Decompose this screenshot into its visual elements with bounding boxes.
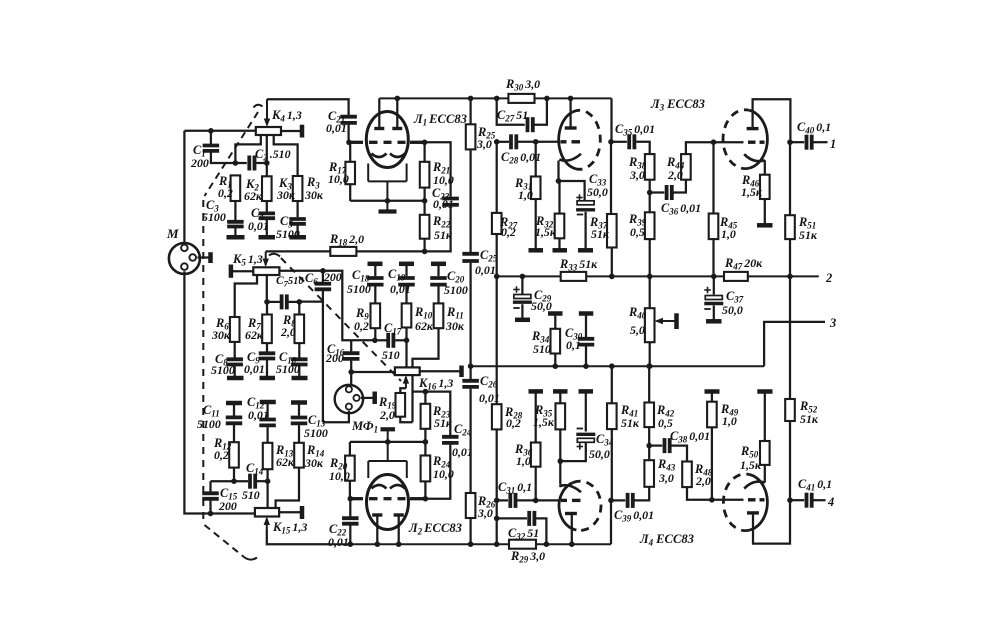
wire R39 bottom <box>649 239 651 276</box>
wire K15 right lead <box>279 511 300 513</box>
anode bar of L3a <box>565 126 577 129</box>
label C4 <box>248 206 269 233</box>
label C34 <box>589 432 614 461</box>
terminal bar under R46 <box>757 223 773 228</box>
svg-text:62к: 62к <box>245 328 264 342</box>
wire R46 bottom <box>764 199 766 224</box>
junction anode bus 2 <box>396 541 402 547</box>
ground symbol under L1 <box>379 201 397 212</box>
terminal bar above C19 <box>399 262 414 267</box>
wire grid into L3b <box>714 141 744 143</box>
potentiometer K15 body <box>255 508 279 517</box>
terminal bar under C29 <box>515 318 530 323</box>
resistor R46 <box>760 175 770 199</box>
wire C27 left <box>497 98 525 124</box>
label R26 <box>477 494 496 520</box>
svg-text:3,0: 3,0 <box>477 506 493 520</box>
junction R34 rail2 <box>553 363 559 369</box>
svg-text:R3351к: R3351к <box>559 257 598 273</box>
resistor R40 (trimmer) <box>645 308 655 342</box>
capacitor C6 <box>315 284 332 290</box>
capacitor C8 <box>226 359 243 364</box>
label R8 <box>280 313 296 339</box>
svg-text:30к: 30к <box>304 456 324 470</box>
chassis bar under C4 <box>259 235 276 240</box>
capacitor C20 <box>430 278 447 285</box>
label C7 <box>276 275 304 289</box>
grid line of L1 (dashed) <box>351 141 425 144</box>
wire node A to C2 <box>235 162 246 164</box>
capacitor C35 <box>629 134 634 149</box>
wire L1 anode top rail <box>379 97 611 99</box>
grid segments of L4b <box>748 498 765 501</box>
wire C30 stem <box>585 314 587 338</box>
wire M bottom pin down-left side <box>184 271 255 513</box>
wire row to R9 <box>351 339 375 341</box>
label C17 <box>384 321 402 337</box>
svg-text:Л3ЕСС83: Л3ЕСС83 <box>650 97 705 113</box>
svg-text:0,5: 0,5 <box>630 225 645 239</box>
wire C17 left <box>375 339 387 341</box>
terminal bar under C33 <box>578 248 593 253</box>
label R1 <box>218 174 233 200</box>
resistor R37 <box>607 214 617 248</box>
label C32 <box>508 526 539 542</box>
junction grid L3b R45 <box>711 139 717 145</box>
svg-text:51к: 51к <box>591 227 610 241</box>
svg-text:0,1: 0,1 <box>566 338 581 352</box>
wire C2 to K2 column <box>256 162 267 164</box>
svg-text:1: 1 <box>830 137 836 151</box>
wire R42 top <box>648 366 650 402</box>
capacitor C21 <box>340 117 357 123</box>
svg-text:200: 200 <box>218 499 237 513</box>
label R27 <box>499 215 518 239</box>
wire R9 bottom <box>374 328 376 340</box>
wire C1 stem top <box>210 131 212 144</box>
junction C39 node <box>608 498 614 504</box>
wiper arrow of R40 <box>655 318 676 324</box>
wire L1 anode stem 2 <box>396 98 398 128</box>
wire R50 top <box>764 393 766 441</box>
chassis bar under C3 <box>227 235 245 240</box>
label C13 <box>304 413 328 440</box>
label R25 <box>476 125 496 151</box>
svg-text:510: 510 <box>533 342 551 356</box>
label R31 <box>514 176 533 202</box>
wire R13 bottom <box>266 469 268 481</box>
resistor R42 <box>644 403 654 428</box>
svg-text:200: 200 <box>190 156 209 170</box>
capacitor C3 <box>227 222 244 227</box>
wire C32 right <box>536 518 546 544</box>
connector M (microphone input) <box>169 243 200 274</box>
wire C5 to bar <box>296 225 298 235</box>
wire bottom bus right part <box>536 543 611 545</box>
wire anode loop L4b <box>753 500 790 543</box>
capacitor C9 <box>259 353 276 358</box>
wire C17 right <box>395 339 406 341</box>
wire C38 left <box>649 444 662 446</box>
wire C10 to bar <box>298 366 300 376</box>
label R17 <box>328 160 349 186</box>
label C12 <box>247 395 269 422</box>
junction grid right node <box>422 140 428 146</box>
label C16 <box>325 342 345 365</box>
label C41 <box>798 477 832 493</box>
label R43 <box>657 457 676 485</box>
wire C20 to R11 <box>437 286 439 303</box>
capacitor C30 <box>578 339 595 345</box>
wire C37 bottom <box>713 306 715 320</box>
svg-text:510: 510 <box>242 488 260 502</box>
wire R21 top <box>423 142 425 162</box>
resistor R34 <box>551 329 561 354</box>
label C26 <box>479 374 500 405</box>
chassis bar under C5 <box>290 235 307 240</box>
label R21 <box>432 160 454 187</box>
chassis bar under C8 <box>227 376 244 381</box>
wire C38 right to R48 <box>671 446 687 462</box>
wire C1 bottom to node A <box>211 153 236 164</box>
wire R38 bottom <box>649 180 651 193</box>
label C11 <box>197 403 221 431</box>
label C22 <box>328 522 349 549</box>
wire C39 right <box>635 487 650 501</box>
wire anode stem L4a <box>571 514 573 545</box>
terminal bar above R50 <box>757 389 772 394</box>
resistor R33 <box>561 272 587 281</box>
wire K4 to K2 column <box>266 135 268 176</box>
terminal bar above C30 <box>579 311 594 316</box>
svg-text:510: 510 <box>382 348 400 362</box>
wire C26 to R26 <box>469 389 471 493</box>
label C33 <box>587 172 608 199</box>
svg-text:1,5к: 1,5к <box>741 185 763 199</box>
svg-text:5100: 5100 <box>444 283 468 297</box>
junction C2 right <box>264 160 270 166</box>
wire C20 stem <box>437 264 439 276</box>
svg-text:30к: 30к <box>276 188 296 202</box>
junction C37 top <box>711 274 717 280</box>
terminal bar under R32 <box>553 248 568 253</box>
cathode box of L2 <box>368 442 407 478</box>
junction anode L4a bus <box>569 541 575 547</box>
resistor R49 <box>707 402 717 428</box>
svg-text:C7510: C7510 <box>276 275 304 289</box>
junction R36 bottom <box>533 498 539 504</box>
svg-text:0,01: 0,01 <box>328 535 349 549</box>
label C9 <box>244 350 265 376</box>
label C21 <box>326 109 347 135</box>
label R29 <box>510 549 545 565</box>
label R13 <box>275 443 295 469</box>
wire R10 bottom <box>405 328 407 341</box>
wire R40 bottom <box>649 342 651 366</box>
wire R49 bottom <box>711 427 713 500</box>
resistor R51 <box>785 215 795 239</box>
capacitor C33 (electrolytic) <box>576 194 595 214</box>
label R52 <box>799 399 819 426</box>
wire C18 to R9 <box>374 286 376 303</box>
capacitor C40 <box>807 135 812 150</box>
svg-text:5100: 5100 <box>347 282 371 296</box>
junction R38 R39 C36 <box>647 190 653 196</box>
wire cathode to C33 <box>559 181 585 194</box>
svg-text:К51,3: К51,3 <box>232 252 263 268</box>
wire C31 row right <box>517 499 559 501</box>
label R33 <box>559 257 598 273</box>
label R19 <box>378 395 397 422</box>
label K3 <box>276 176 296 202</box>
terminal bar above C13 <box>291 400 307 405</box>
label C5 <box>276 214 300 241</box>
resistor R32 <box>555 214 565 239</box>
label C29 <box>531 288 552 313</box>
wire K4 right lead <box>281 130 301 132</box>
wire R23 top <box>424 392 426 404</box>
svg-text:5100: 5100 <box>276 362 300 376</box>
wire output1 left <box>790 141 804 143</box>
wire C21 to grid node <box>347 125 349 143</box>
wire R7 top <box>266 302 268 315</box>
wire supply rail 277 <box>497 275 819 277</box>
resistor R52 <box>785 399 795 421</box>
wire R52 top <box>789 276 791 399</box>
label C15 <box>218 486 238 513</box>
label R14 <box>304 443 325 470</box>
junction C6 top <box>320 268 326 274</box>
junction column611 rail2 <box>609 363 615 369</box>
wire R27 top <box>496 142 498 213</box>
tube L4a envelope (half dashed) <box>559 481 601 530</box>
wire R22 bottom <box>423 239 425 252</box>
junction C28 left <box>494 139 500 145</box>
resistor R17 <box>345 162 355 184</box>
junction R29 C32 bus <box>544 541 550 547</box>
resistor R26 <box>466 493 476 518</box>
wire C13 stem <box>298 403 300 416</box>
label C37 <box>722 289 744 317</box>
wire C25 to rail2 <box>469 263 471 367</box>
svg-text:5100: 5100 <box>276 227 300 241</box>
wire R21 to R22 <box>423 188 425 215</box>
label R35 <box>533 403 555 429</box>
wire cathode stem L4a <box>559 461 561 484</box>
wire R17 bottom <box>349 184 351 201</box>
connector MF1 <box>335 385 363 413</box>
svg-text:2: 2 <box>825 271 832 285</box>
wire K5 right branch down <box>323 271 351 341</box>
grid segments of L4a <box>561 499 581 502</box>
wire R31 bottom <box>535 199 537 249</box>
junction R31 top <box>533 139 539 145</box>
wire K16 bottom right column <box>411 375 413 422</box>
wire K16 wiper column <box>405 340 407 367</box>
resistor R36 <box>531 443 541 467</box>
svg-text:К41,3: К41,3 <box>271 108 302 124</box>
wire M right pin <box>197 256 209 258</box>
resistor R28 <box>492 404 502 429</box>
wire C35 node to R37 <box>610 142 612 214</box>
junction R9 C17 <box>372 338 378 344</box>
label R36 <box>514 442 533 468</box>
label R45 <box>719 215 738 241</box>
wire K16 column to R23 node <box>413 390 426 392</box>
wire C22 stem <box>349 499 351 517</box>
wire C4 to bar <box>266 220 268 236</box>
junction R12 C14 <box>231 478 237 484</box>
resistor R38 <box>645 154 655 180</box>
capacitor C23 <box>442 199 459 205</box>
wire top-left rail <box>184 130 255 132</box>
chassis bar under C9 <box>260 376 276 381</box>
anode bars of L2 <box>372 513 404 516</box>
resistor R29 <box>509 540 536 549</box>
junction output 4 node <box>787 497 793 503</box>
terminal bar above C11 <box>226 401 242 406</box>
svg-text:2,0: 2,0 <box>280 325 296 339</box>
svg-text:30к: 30к <box>445 319 465 333</box>
resistor R7 <box>262 315 272 344</box>
wire C14 row left <box>211 480 249 482</box>
resistor R39 <box>645 212 655 239</box>
label R9 <box>354 306 369 333</box>
svg-text:30к: 30к <box>304 188 324 202</box>
wire C33 stem <box>583 194 585 201</box>
label R22 <box>432 214 453 242</box>
svg-text:5100: 5100 <box>211 363 235 377</box>
wire C12 to R13 <box>266 427 268 443</box>
capacitor C1 <box>203 146 220 151</box>
svg-text:5,0: 5,0 <box>630 323 645 337</box>
capacitor C25 <box>462 254 479 261</box>
wire R24 bottom <box>424 481 426 498</box>
wire R52 bottom <box>789 421 791 500</box>
cathode arcs of L1 <box>372 154 406 158</box>
terminal bar above C12 <box>260 400 276 405</box>
label C1 <box>190 143 209 170</box>
capacitor C17 <box>388 333 393 348</box>
wire node B to R8 <box>298 302 300 315</box>
dashed mechanical link to K4 <box>205 105 263 196</box>
capacitor C16 <box>343 353 360 359</box>
svg-text:0,2: 0,2 <box>501 225 516 239</box>
resistor R6 <box>230 317 240 342</box>
grid segments of L3b <box>748 140 765 143</box>
capacitor C13 <box>291 418 308 424</box>
wire C22 bottom <box>349 525 351 544</box>
junction C17 R10 K16 <box>404 338 410 344</box>
tube L3b envelope (half dashed) <box>723 110 767 169</box>
svg-text:50,0: 50,0 <box>589 447 610 461</box>
svg-text:200: 200 <box>323 270 342 284</box>
label C14 <box>246 461 264 477</box>
wire R45 top <box>712 142 714 213</box>
svg-text:0,2: 0,2 <box>354 319 369 333</box>
wire C13 to R14 <box>298 425 300 443</box>
junction R21 R22 <box>422 198 428 204</box>
wire cathode to R46 <box>764 160 766 175</box>
wiper arrow of K4 <box>264 99 270 127</box>
resistor R22 <box>420 215 430 239</box>
wire C11 to R12 <box>233 425 235 442</box>
wire R41 bottom <box>611 429 613 500</box>
resistor R43 <box>644 460 654 487</box>
label R39 <box>628 212 647 239</box>
capacitor C31 <box>510 493 515 508</box>
wire bus corner up <box>610 500 612 544</box>
svg-text:50,0: 50,0 <box>587 185 608 199</box>
cathode arc of L3a <box>559 154 581 161</box>
svg-text:2,0: 2,0 <box>379 408 395 422</box>
junction R27 rail277 <box>494 274 500 280</box>
junction grid left L2 <box>348 496 354 502</box>
label R34 <box>531 329 551 356</box>
capacitor C10 <box>291 359 308 364</box>
junction grid L4b R49 <box>709 497 715 503</box>
resistor R20 <box>345 456 355 481</box>
svg-text:Л4ЕСС83: Л4ЕСС83 <box>639 532 694 548</box>
label R11 <box>445 305 465 333</box>
svg-text:0,01: 0,01 <box>390 282 411 296</box>
svg-text:0,01: 0,01 <box>248 219 269 233</box>
capacitor C37 (electrolytic) <box>704 287 723 309</box>
label C31 <box>498 480 532 496</box>
capacitor C7 <box>282 294 287 309</box>
svg-text:1,0: 1,0 <box>518 188 533 202</box>
grid segments of L3a <box>561 140 581 143</box>
junction R13 C14 K15 <box>265 478 271 484</box>
wire C11 stem <box>233 403 235 416</box>
wire R45 bottom <box>712 239 714 276</box>
label R24 <box>432 454 454 481</box>
junction terminal2 node <box>787 274 793 280</box>
wire R42 bottom <box>648 427 650 446</box>
label R42 <box>656 403 675 430</box>
svg-text:5100: 5100 <box>197 417 221 431</box>
label R6 <box>211 316 231 342</box>
wire rail2 (middle rail) <box>471 365 764 367</box>
label R51 <box>798 215 818 242</box>
node C7 left junction <box>264 299 270 305</box>
potentiometer K5 body <box>253 267 279 275</box>
resistor R44 <box>681 154 691 180</box>
capacitor C24 <box>442 437 459 443</box>
wire K16 left lead <box>351 371 395 373</box>
resistor R8 <box>295 315 305 344</box>
wire R36 top <box>535 391 537 442</box>
wire R51 bottom <box>789 239 791 276</box>
terminal bar at K4 right <box>300 125 305 138</box>
junction R25 top <box>468 96 474 102</box>
wire R12 bottom <box>233 468 235 482</box>
wire C36 right to R44 <box>674 180 686 193</box>
svg-text:M: M <box>166 226 179 241</box>
wire L2 anode stem 1 <box>376 515 378 544</box>
wire K3 to C5 <box>296 201 298 217</box>
wire C7 left to K5 stub <box>267 301 280 303</box>
terminal bar at K5 left <box>229 265 234 278</box>
resistor R18 <box>330 247 356 256</box>
capacitor C22 <box>342 518 359 524</box>
svg-text:C360,01: C360,01 <box>661 201 701 217</box>
chassis bar under C10 <box>292 376 308 381</box>
wire R25 top <box>469 98 471 124</box>
wire anode stem L3a <box>569 98 571 128</box>
wire C31 row left <box>497 499 508 501</box>
capacitor C15 <box>202 493 219 499</box>
